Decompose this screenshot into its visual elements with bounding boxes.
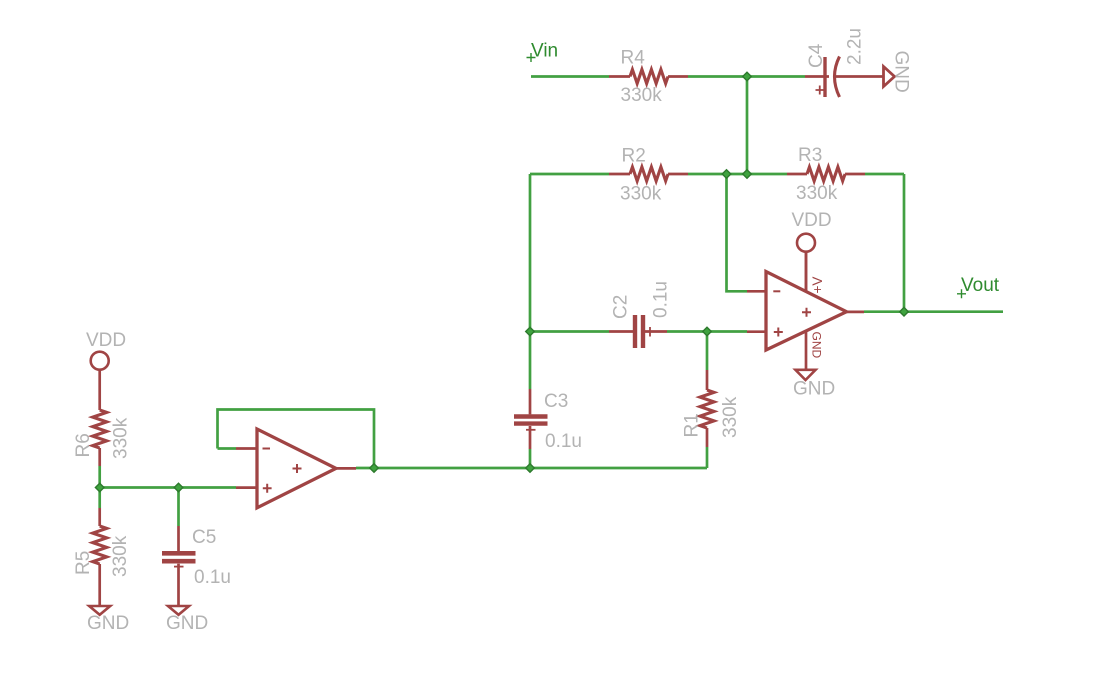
capacitor C5	[162, 526, 231, 606]
svg-text:VDD: VDD	[86, 330, 126, 351]
svg-text:R6: R6	[73, 433, 94, 457]
op-amp U1	[236, 429, 356, 508]
svg-text:330k: 330k	[620, 184, 662, 205]
svg-text:Vin: Vin	[531, 41, 558, 62]
svg-text:330k: 330k	[110, 535, 131, 577]
svg-text:330k: 330k	[111, 417, 132, 459]
resistor R4	[609, 48, 688, 107]
svg-text:C2: C2	[611, 295, 632, 319]
wire bias to opamp1 plus	[100, 486, 236, 489]
power VDD right	[792, 210, 832, 293]
svg-text:GND: GND	[793, 379, 835, 400]
svg-text:330k: 330k	[720, 396, 741, 438]
svg-text:330k: 330k	[796, 183, 838, 204]
svg-text:0.1u: 0.1u	[194, 567, 231, 588]
svg-text:R4: R4	[621, 48, 646, 69]
wire right side vertical	[903, 174, 906, 312]
junction C2 left node	[526, 327, 535, 336]
wire left rail mid	[98, 466, 101, 508]
wire Vin to R4	[531, 75, 609, 78]
wire C2 to opamp plus	[667, 330, 747, 333]
svg-text:R2: R2	[622, 146, 646, 167]
svg-text:+V: +V	[810, 277, 825, 294]
ground symbol at C4	[884, 51, 912, 93]
svg-text:Vout: Vout	[961, 275, 1000, 296]
resistor R3	[787, 145, 865, 204]
resistor R5	[73, 508, 131, 606]
svg-text:C4: C4	[806, 43, 827, 68]
junction C5 node	[174, 483, 183, 492]
resistor R6	[73, 369, 132, 466]
svg-text:0.1u: 0.1u	[651, 281, 672, 318]
junction C2 right node	[703, 327, 712, 336]
wire R2 to R3	[688, 173, 787, 176]
wire opamp1 feedback loop	[218, 410, 375, 469]
svg-text:GND: GND	[166, 613, 208, 634]
junction C3 bottom node	[526, 464, 535, 473]
wire row2 left segment	[530, 173, 609, 176]
wire R1 bottom	[706, 447, 709, 468]
wire bottom horizontal	[356, 467, 707, 470]
junction row2 right	[743, 170, 752, 179]
resistor R1	[682, 370, 742, 447]
op-amp U2	[747, 252, 864, 359]
junction row2 left	[722, 170, 731, 179]
svg-text:R1: R1	[682, 413, 703, 437]
wire C5 drop	[177, 488, 180, 527]
wire opamp1 minus stub	[218, 447, 237, 450]
net label Vout	[957, 275, 1000, 298]
svg-text:2.2u: 2.2u	[845, 28, 866, 65]
wire left vertical to C3	[529, 174, 532, 389]
wire R4 to C4	[688, 75, 805, 78]
resistor R2	[609, 146, 688, 205]
svg-text:R5: R5	[73, 551, 94, 575]
capacitor C2	[609, 281, 672, 348]
junction top node	[743, 72, 752, 81]
svg-text:0.1u: 0.1u	[545, 431, 582, 452]
wire C3 bottom	[529, 449, 532, 468]
svg-text:330k: 330k	[621, 85, 663, 106]
svg-text:VDD: VDD	[792, 210, 832, 231]
svg-text:C3: C3	[544, 391, 568, 412]
wire R3 to right corner	[865, 173, 904, 176]
junction bias node	[95, 483, 104, 492]
wire opamp2 minus branch	[727, 174, 748, 291]
power VDD left	[86, 330, 126, 370]
ground symbol below C5	[166, 606, 208, 634]
svg-text:R3: R3	[798, 145, 822, 166]
wire opamp2 output	[864, 310, 1003, 313]
svg-text:GND: GND	[810, 332, 824, 359]
ground symbol below opamp U2	[793, 331, 835, 400]
svg-text:GND: GND	[891, 51, 912, 93]
wire top node down	[746, 77, 749, 175]
capacitor C4 polarized	[805, 28, 884, 97]
wire node to R1 top	[706, 332, 709, 371]
junction feedback node	[370, 464, 379, 473]
svg-text:GND: GND	[87, 613, 129, 634]
ground symbol below R5	[87, 606, 129, 634]
junction output node	[900, 307, 909, 316]
capacitor C3	[514, 389, 582, 452]
net label Vin	[527, 41, 559, 63]
wire C2 branch left	[530, 330, 609, 333]
svg-text:C5: C5	[192, 527, 216, 548]
